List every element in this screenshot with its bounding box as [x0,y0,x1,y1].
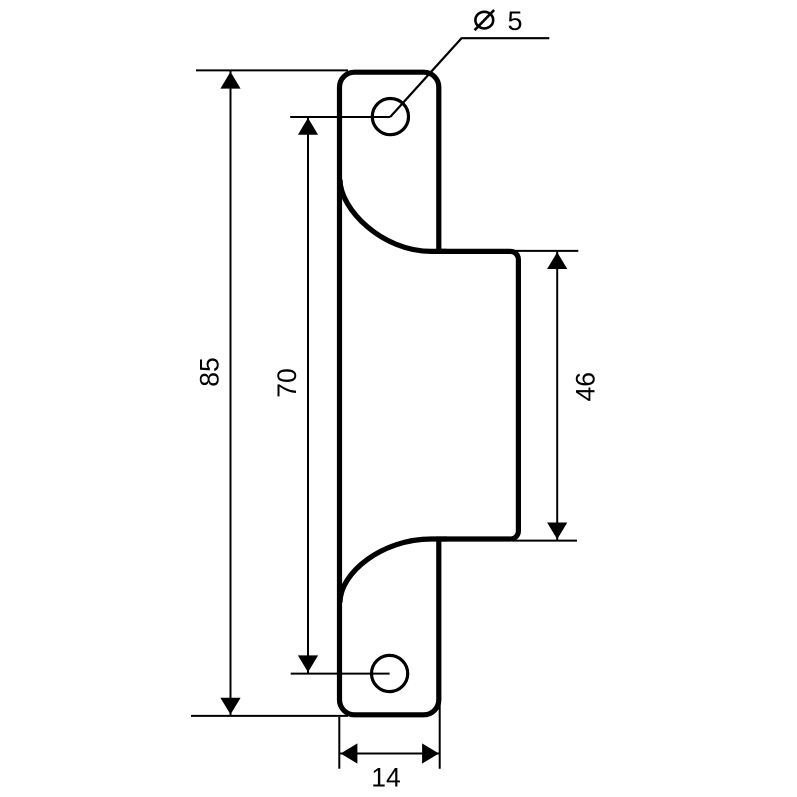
dim 14 extension line left [338,717,340,769]
svg-text:46: 46 [571,372,601,401]
hole diameter label [475,6,523,36]
dim 46 extension line top [505,250,578,252]
bottom hole [372,655,408,691]
svg-text:85: 85 [194,357,224,386]
dim 46 arrow up [547,252,567,269]
dim 85 dimension line [230,70,232,716]
dim 70 extension line top [290,116,390,118]
leader line for hole diameter [390,38,549,117]
dim 14 dimension line [340,753,440,755]
dim 85 arrow up [220,72,240,89]
dim 46 dimension line [556,251,558,541]
dim 46 arrow down [547,523,567,540]
svg-text:5: 5 [508,6,523,36]
dim 14 arrow left [341,743,358,763]
svg-text:70: 70 [272,368,302,397]
svg-text:14: 14 [371,763,400,793]
dim 46 extension line bottom [512,540,577,542]
top hole [372,99,408,135]
dim 85 arrow down [220,698,240,715]
dim 14 extension line right [439,690,441,769]
dim 85 extension line top [196,69,348,71]
dim 85 extension line bottom [191,715,348,717]
dim 70 arrow up [298,118,318,135]
dim 70 dimension line [307,117,309,674]
dim 70 arrow down [298,655,318,672]
lower fillet curve [340,539,447,603]
part outline (strike plate side profile) [340,72,519,715]
dim 14 arrow right [422,743,439,763]
dim 70 extension line bottom [291,673,390,675]
upper fillet curve [340,180,447,252]
